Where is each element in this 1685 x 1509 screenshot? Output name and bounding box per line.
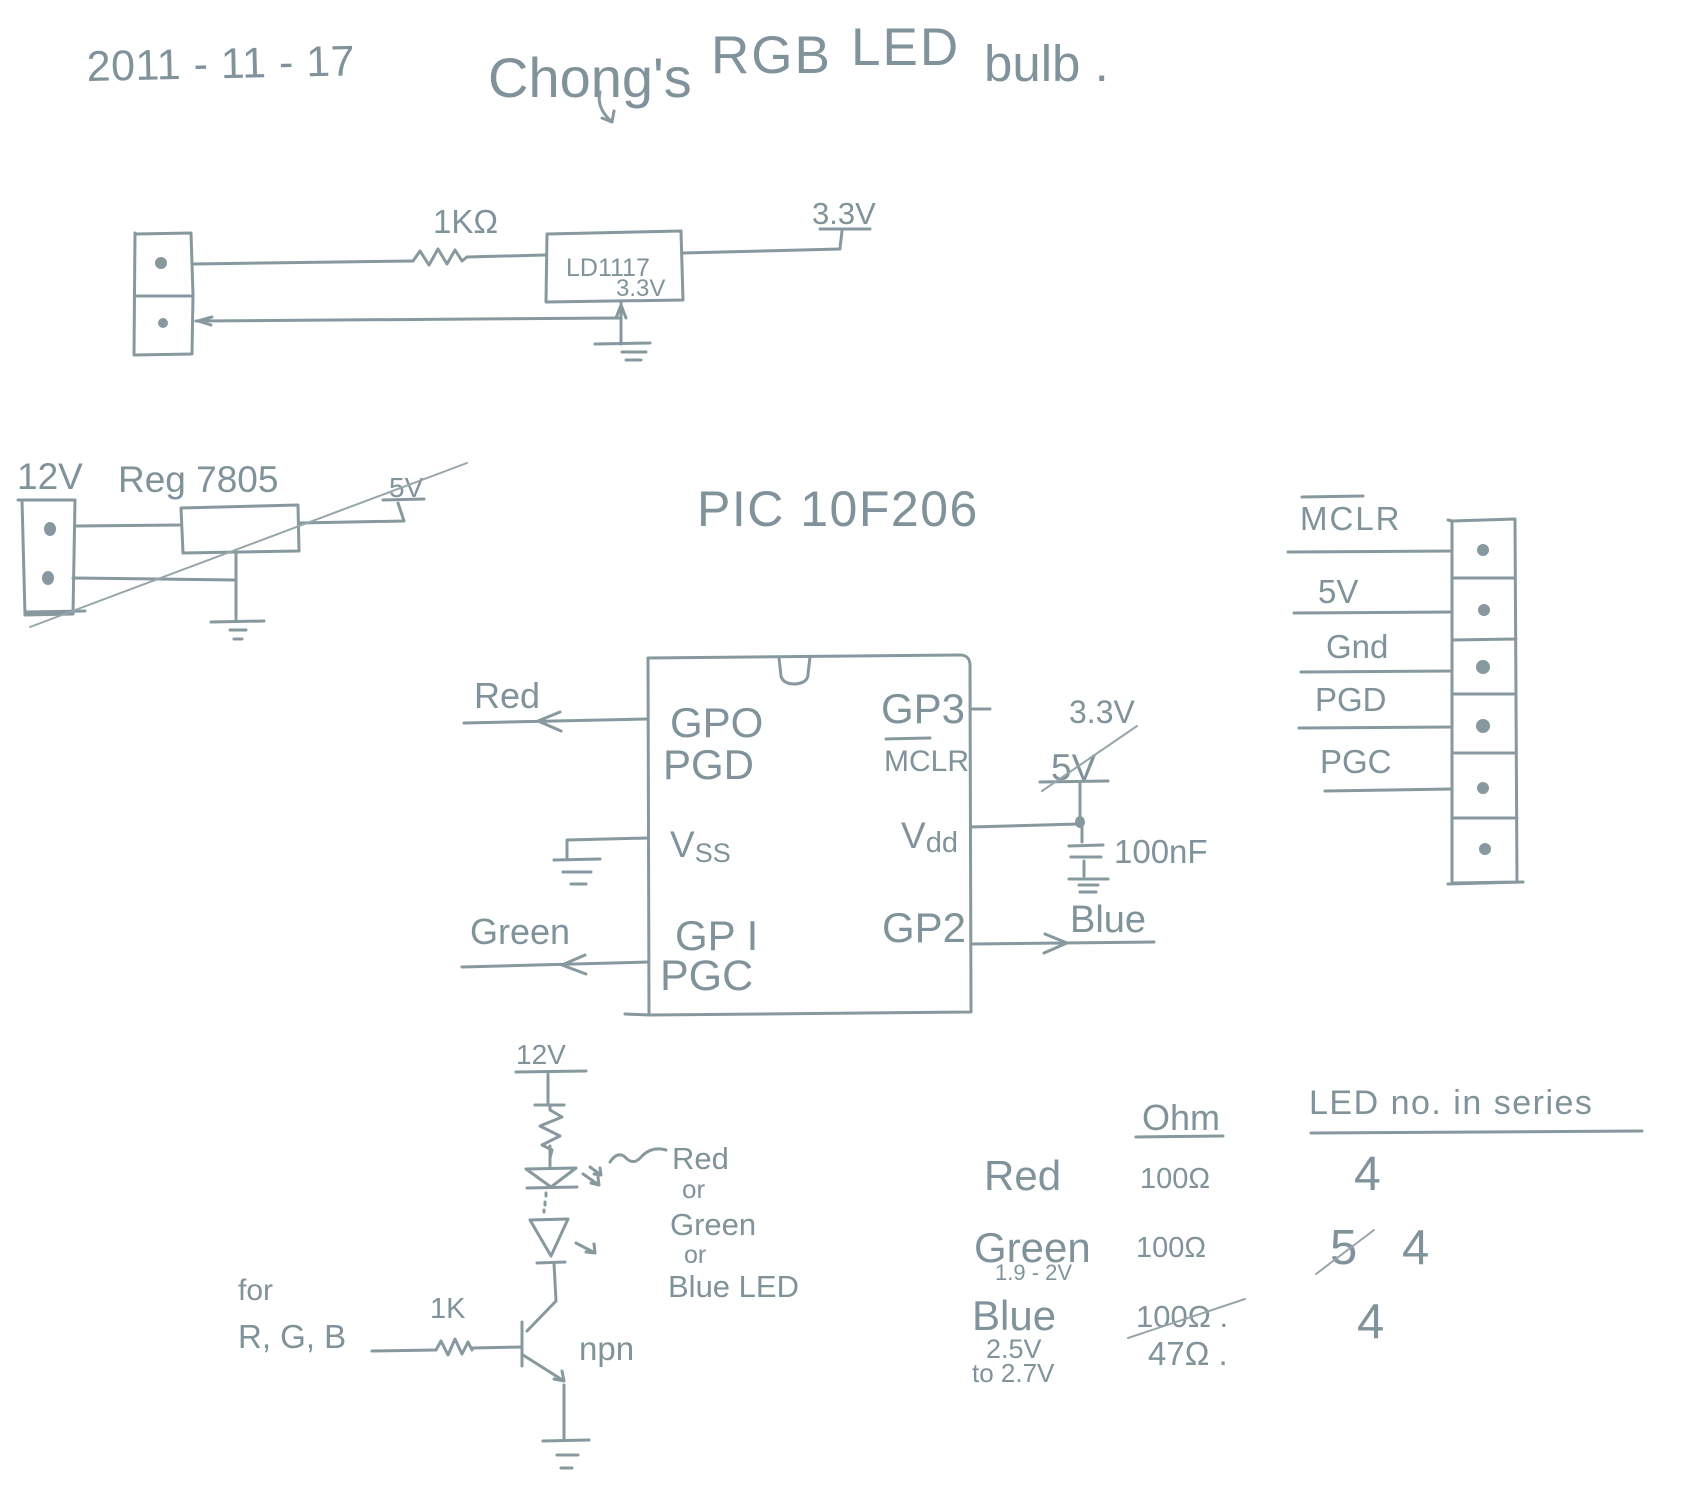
- wire 5V to J4: [1294, 612, 1452, 613]
- svg-text:47Ω .: 47Ω .: [1148, 1335, 1228, 1372]
- ground G5: [1069, 879, 1108, 892]
- connector J2: [18, 500, 85, 615]
- wire GPI to Green with arrow: [462, 955, 648, 974]
- svg-text:100nF: 100nF: [1114, 833, 1208, 870]
- IC U1 PIC10F206 box: [625, 655, 971, 1015]
- svg-text:GPO: GPO: [670, 699, 763, 746]
- wire Vss to ground G4: [567, 838, 648, 858]
- svg-text:1.9 - 2V: 1.9 - 2V: [995, 1260, 1072, 1285]
- svg-text:to 2.7V: to 2.7V: [972, 1358, 1055, 1388]
- svg-text:PGD: PGD: [1315, 681, 1387, 718]
- svg-text:PGC: PGC: [1320, 743, 1392, 780]
- svg-text:MCLR: MCLR: [1300, 500, 1402, 537]
- svg-text:3.3V: 3.3V: [1069, 694, 1135, 730]
- svg-text:Blue: Blue: [1070, 899, 1146, 941]
- resistor R3 1K: [436, 1339, 472, 1355]
- regulator U3 7805 box: [181, 505, 299, 553]
- svg-text:PGC: PGC: [660, 952, 753, 1000]
- wire U2 GND down with up arrow: [616, 302, 626, 344]
- svg-text:Red: Red: [984, 1152, 1061, 1199]
- transistor Q1: [522, 1301, 564, 1381]
- svg-text:Chong's: Chong's: [488, 46, 692, 109]
- ground G1: [595, 343, 650, 360]
- svg-text:12V: 12V: [17, 456, 83, 497]
- wire GP2 to Blue with arrow: [971, 934, 1154, 953]
- svg-text:Ohm: Ohm: [1142, 1097, 1220, 1138]
- wire GPO to Red with arrow: [464, 712, 648, 731]
- svg-text:RGB: RGB: [711, 26, 832, 85]
- svg-text:3.3V: 3.3V: [812, 196, 876, 231]
- IC U1 notch: [779, 657, 810, 684]
- svg-text:5V: 5V: [389, 472, 424, 503]
- svg-text:bulb .: bulb .: [984, 35, 1109, 92]
- svg-text:LED no. in series: LED no. in series: [1309, 1084, 1593, 1122]
- Q1 emitter arrowhead: [554, 1371, 564, 1381]
- svg-text:1KΩ: 1KΩ: [433, 203, 498, 240]
- wire U3 out to 5V rail: [299, 503, 404, 523]
- wire MCLR to J4: [1288, 551, 1452, 552]
- svg-text:Reg 7805: Reg 7805: [118, 459, 278, 500]
- LED D1: [526, 1168, 577, 1188]
- wire D2 to Q1 collector: [554, 1263, 556, 1301]
- ground G2: [211, 621, 264, 639]
- wire Q1 emitter to ground: [563, 1385, 566, 1440]
- wire J2 pin2 to U3 GND net: [73, 578, 236, 580]
- wire J1 pin2 to U2 ground return: [196, 317, 620, 325]
- svg-text:Red: Red: [474, 675, 540, 716]
- svg-text:Gnd: Gnd: [1326, 628, 1388, 665]
- ground G6: [543, 1440, 589, 1468]
- svg-text:100Ω: 100Ω: [1136, 1232, 1206, 1264]
- pin stub GP3: [971, 708, 990, 711]
- cross-out stroke over 5V: [1042, 726, 1137, 791]
- svg-text:PIC 10F206: PIC 10F206: [697, 481, 979, 537]
- svg-text:Blue LED: Blue LED: [668, 1269, 799, 1304]
- svg-text:LED: LED: [851, 18, 960, 77]
- svg-text:Blue: Blue: [972, 1292, 1056, 1339]
- connector J1: [134, 233, 193, 355]
- junction dot at Vdd node: [1075, 816, 1085, 828]
- svg-text:4: 4: [1354, 1148, 1381, 1201]
- svg-text:MCLR: MCLR: [884, 745, 969, 778]
- svg-text:for: for: [238, 1274, 273, 1307]
- svg-text:Green: Green: [470, 911, 570, 952]
- svg-text:5: 5: [1330, 1221, 1357, 1275]
- wire PGC to J4: [1325, 789, 1452, 791]
- svg-text:100Ω: 100Ω: [1140, 1163, 1210, 1195]
- regulator U2 LD1117 box: [546, 231, 683, 302]
- squiggle to Red label: [610, 1149, 666, 1162]
- wire R1 to U2: [467, 255, 545, 257]
- svg-text:or: or: [684, 1241, 706, 1269]
- wire R3 to Q1 base: [472, 1347, 522, 1348]
- svg-text:12V: 12V: [516, 1039, 566, 1070]
- resistor R1 1k: [413, 249, 467, 265]
- svg-text:Red: Red: [672, 1141, 729, 1176]
- wire Vdd to C1 node: [971, 824, 1079, 827]
- svg-text:GP2: GP2: [882, 904, 966, 951]
- svg-text:100Ω .: 100Ω .: [1136, 1299, 1228, 1334]
- title pen mark under Chong's: [599, 92, 614, 122]
- cross-out line over 7805 circuit: [30, 463, 467, 627]
- power rail 5V: [383, 499, 424, 500]
- capacitor C1: [1069, 827, 1103, 876]
- svg-text:or: or: [682, 1174, 705, 1204]
- wire base input: [372, 1350, 436, 1351]
- svg-text:4: 4: [1357, 1295, 1384, 1349]
- LED D2: [530, 1219, 568, 1263]
- wire U2 out to 3.3V rail: [683, 249, 840, 253]
- svg-text:1K: 1K: [430, 1293, 466, 1325]
- svg-text:R, G, B: R, G, B: [238, 1318, 346, 1355]
- svg-text:5V: 5V: [1318, 573, 1358, 610]
- wire Gnd to J4: [1301, 671, 1452, 672]
- wire U3 GND down: [235, 553, 238, 621]
- arrow at D1: [583, 1167, 601, 1185]
- power rail 3.3V: [820, 229, 870, 248]
- svg-text:npn: npn: [579, 1330, 634, 1367]
- label title Chong's RGB LED bulb: [488, 18, 1109, 109]
- connector J4 ICSP header: [1448, 519, 1523, 884]
- power rail 3.3V at Vdd: [1040, 781, 1108, 818]
- ground G4: [554, 859, 600, 884]
- wire R2 to D1: [549, 1146, 552, 1167]
- wire PGD to J4: [1299, 727, 1452, 728]
- arrow at D2: [576, 1243, 595, 1253]
- svg-text:2011 - 11 - 17: 2011 - 11 - 17: [86, 37, 355, 91]
- wire J1 pin1 to R1: [193, 261, 413, 264]
- svg-text:Green: Green: [670, 1207, 756, 1242]
- dotted series continuation between D1 and D2: [544, 1193, 546, 1212]
- svg-text:4: 4: [1402, 1221, 1429, 1275]
- wire J2 pin1 to U3: [75, 525, 181, 526]
- svg-text:GP3: GP3: [881, 685, 965, 732]
- svg-text:5V: 5V: [1051, 747, 1097, 788]
- resistor R2 vertical: [540, 1105, 562, 1158]
- svg-text:3.3V: 3.3V: [616, 275, 665, 302]
- svg-text:PGD: PGD: [663, 741, 754, 788]
